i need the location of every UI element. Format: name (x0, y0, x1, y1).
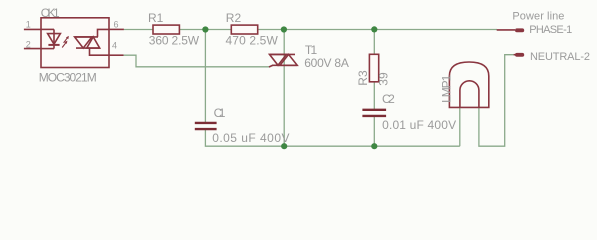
svg-text:NEUTRAL-2: NEUTRAL-2 (530, 51, 590, 63)
svg-text:R3: R3 (356, 70, 370, 86)
svg-text:2: 2 (26, 39, 31, 49)
svg-text:1: 1 (26, 20, 31, 30)
svg-text:Power line: Power line (512, 10, 564, 22)
svg-text:PHASE-1: PHASE-1 (529, 24, 572, 36)
svg-text:6: 6 (114, 20, 119, 30)
svg-text:T1: T1 (305, 43, 318, 57)
svg-text:470 2.5W: 470 2.5W (226, 33, 279, 47)
svg-text:MOC3021M: MOC3021M (39, 71, 97, 85)
svg-text:OK1: OK1 (41, 6, 60, 20)
svg-text:600V 8A: 600V 8A (304, 56, 349, 70)
svg-text:R1: R1 (148, 11, 164, 25)
svg-text:R2: R2 (226, 11, 242, 25)
svg-text:C2: C2 (382, 92, 395, 106)
svg-text:0.01 uF 400V: 0.01 uF 400V (382, 118, 456, 132)
svg-text:LMP1: LMP1 (440, 74, 454, 103)
svg-text:360 2.5W: 360 2.5W (149, 33, 200, 47)
svg-text:39: 39 (377, 72, 391, 86)
svg-text:0.05 uF 400V: 0.05 uF 400V (212, 131, 289, 145)
svg-text:C1: C1 (214, 106, 226, 120)
svg-text:4: 4 (112, 40, 117, 50)
